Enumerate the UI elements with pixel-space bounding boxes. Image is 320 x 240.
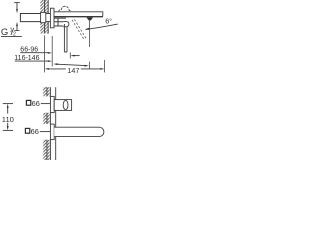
dim 110 bottom tick xyxy=(3,129,13,131)
lever knob ellipse (plan) xyxy=(63,100,68,109)
escutcheon (side view) xyxy=(50,8,54,28)
svg-text:66: 66 xyxy=(32,99,40,108)
wall (side view) hatch lower xyxy=(40,22,48,34)
wall (plan view) hatch seg1 xyxy=(43,87,51,96)
dim 110 upper arrow xyxy=(7,104,9,108)
dim 147 extension right xyxy=(104,60,106,72)
G1/2 dim upper arrow xyxy=(16,3,18,10)
wall face line (plan view) xyxy=(49,87,51,160)
G1/2 supply pipe xyxy=(20,14,50,22)
lever swing dashed line 1 xyxy=(72,20,84,39)
leader to spout escutcheon xyxy=(40,131,50,133)
handle escutcheon (plan) xyxy=(50,96,54,112)
wall (plan view) hatch seg3 xyxy=(43,140,51,160)
G1/2 dim top tick xyxy=(14,2,20,4)
leader to escutcheon face xyxy=(57,64,86,65)
wall face extension line xyxy=(51,36,53,67)
aerator (solid) xyxy=(86,17,93,20)
water stream line xyxy=(89,20,91,47)
wall (side view) hatch upper xyxy=(40,0,48,13)
dim 110 lower arrow xyxy=(7,123,9,127)
svg-text:147: 147 xyxy=(67,66,79,75)
lever raised position (dashed arc) xyxy=(59,6,71,11)
label square 66 (handle) xyxy=(26,100,30,105)
wall line face (side view) xyxy=(47,0,49,34)
svg-text:6°: 6° xyxy=(105,16,112,25)
6 degree arc with arrow xyxy=(86,24,118,29)
handle body (side view) xyxy=(54,18,66,26)
pipe mounting collar xyxy=(41,12,46,22)
spout (side view) xyxy=(54,12,103,16)
label square 66 (spout) xyxy=(25,128,29,133)
dim 110 top tick xyxy=(3,103,13,105)
dim 147 line and arrows xyxy=(48,68,101,70)
svg-text:110: 110 xyxy=(2,115,14,124)
wall line rear (side view) xyxy=(44,0,46,34)
G1/2 dim bottom tick xyxy=(14,30,19,32)
lever swing dashed line 2 xyxy=(74,19,86,38)
svg-text:66: 66 xyxy=(31,127,39,136)
lever (side view, down) xyxy=(64,24,67,52)
leader arrow at lever tip xyxy=(69,52,71,58)
dim 147 extension left xyxy=(44,35,46,72)
G1/2 dim lower arrow xyxy=(16,26,18,31)
handle pivot cap xyxy=(63,21,69,26)
wall (plan view) hatch seg2 xyxy=(43,113,51,124)
spout stadium (plan) xyxy=(54,127,104,136)
leader to handle escutcheon xyxy=(41,103,50,105)
finished wall line (plan view) xyxy=(55,87,57,160)
handle body (plan) xyxy=(54,100,71,111)
wall rear line (plan view) xyxy=(46,87,48,160)
spout escutcheon (plan) xyxy=(50,124,54,140)
